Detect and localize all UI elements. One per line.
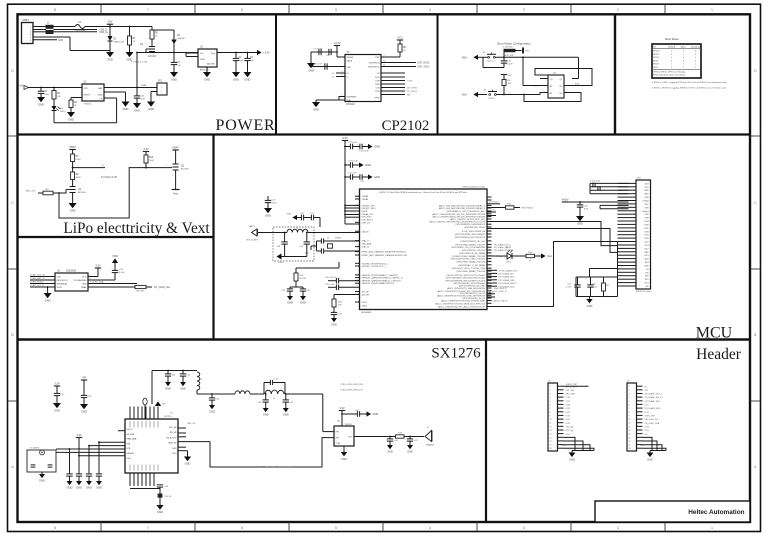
ground at C32 [53,403,61,413]
wire gate Q3 [146,165,172,168]
svg-text:JP2: JP2 [637,178,642,180]
svg-text:AO3401: AO3401 [148,55,157,58]
svg-text:C10: C10 [140,96,145,98]
svg-text:(ADC2_CH7/GPIO27)_SDA_OLED/GPI: (ADC2_CH7/GPIO27)_SDA_OLED/GPIO4 [447,287,486,290]
label ctrl notes [340,384,363,392]
svg-text:GND: GND [462,56,468,59]
svg-text:10K: 10K [57,96,61,98]
svg-text:SD0: SD0 [645,276,649,278]
svg-text:SDIN(SDA): SDIN(SDA) [57,283,68,286]
svg-text:D-: D- [347,77,350,79]
svg-text:C9 4.7uF: C9 4.7uF [313,64,323,66]
svg-text:PN_SLAVE_SDI_19: PN_SLAVE_SDI_19 [645,396,664,399]
svg-text:SENSOR_CAPN(GPIO38/ADC1_CH2/RT: SENSOR_CAPN(GPIO38/ADC1_CH2/RTC) [362,279,402,282]
wire header comb [618,183,629,296]
svg-text:IO26: IO26 [644,238,648,240]
resistor R1 [110,26,136,52]
wire misc stubs [487,243,512,302]
svg-text:GND: GND [123,107,129,111]
svg-text:GND: GND [283,413,289,417]
wire lipo loop [58,168,146,218]
svg-text:3V3: 3V3 [508,75,513,77]
svg-text:5: 5 [335,8,337,12]
ground at R4 [67,112,75,122]
svg-text:U4: U4 [553,73,557,75]
svg-text:6: 6 [550,404,551,406]
svg-text:U5: U5 [57,271,61,273]
svg-text:AO3400: AO3400 [78,191,87,194]
svg-text:L1: L1 [47,23,50,25]
svg-text:IO25: IO25 [644,235,648,237]
ic U5 OLED [55,271,88,292]
ground arrow c13 [368,144,380,149]
svg-text:100K: 100K [149,160,155,162]
svg-text:GND: GND [347,100,352,102]
svg-text:GND: GND [157,510,163,514]
svg-text:PROG: PROG [84,95,91,97]
svg-text:2K: 2K [74,105,77,107]
svg-text:(IO13/MTCK/HS2_DATA3)_TOUCH4: (IO13/MTCK/HS2_DATA3)_TOUCH4 [452,255,486,258]
svg-text:3: 3 [172,175,174,177]
svg-text:1: 1 [711,8,713,12]
ground arrow c14 [359,162,371,167]
svg-text:VDD: VDD [112,254,118,258]
power rail 3.3V MCU [342,136,348,224]
pin stubs U6 right [487,197,492,307]
svg-text:(GPIO23/VSPID)_GPIO23/VSPID: (GPIO23/VSPID)_GPIO23/VSPID [455,234,486,236]
svg-text:GND: GND [644,190,649,192]
svg-text:OLED_SDA 4: OLED_SDA 4 [30,280,44,283]
svg-text:5: 5 [629,401,630,403]
wire header decouple net [576,269,618,297]
svg-text:PN_SLAVE_SDO: PN_SLAVE_SDO [645,400,661,403]
svg-text:VDDA: VDDA [362,210,368,213]
svg-text:IO38: IO38 [644,218,648,220]
svg-text:S2: S2 [484,89,487,91]
svg-text:A: A [11,465,14,469]
crystal Y1 [305,238,360,255]
capacitor C40 xtal chain [130,485,172,505]
svg-text:4: 4 [429,526,431,530]
transistor Q1 AO3401 [131,39,157,64]
svg-text:MTDI: MTDI [653,60,659,62]
svg-text:GND: GND [577,222,583,226]
svg-text:L5: L5 [273,398,276,400]
capacitor C20 C21 row [287,213,320,227]
svg-text:PN_SLAVE_SDO_27: PN_SLAVE_SDO_27 [494,249,512,252]
svg-text:0.1uF: 0.1uF [593,287,599,289]
power VDD arrow [112,254,118,270]
resistor R6 [501,75,512,96]
svg-text:GND: GND [148,107,154,111]
svg-text:7: 7 [550,408,551,410]
svg-text:25: 25 [383,64,385,66]
svg-text:SENSOR_CAPP(GPIO37/ADC1_CH1/RT: SENSOR_CAPP(GPIO37/ADC1_CH1/RTC_1) [362,277,404,280]
svg-text:4: 4 [429,8,431,12]
svg-text:VBAT: VBAT [81,286,87,289]
svg-text:CP_RTS1: CP_RTS1 [407,91,418,93]
svg-text:GND: GND [365,163,371,167]
wire RST net [497,51,579,79]
svg-text:J3: J3 [627,381,630,383]
table boot mode [652,37,702,78]
svg-text:10uF: 10uF [272,202,278,204]
inductor L5 [265,390,284,400]
svg-text:VR_ANA: VR_ANA [127,433,135,436]
wire 3.3V rail [137,50,270,55]
wire U0TXD to header [487,222,618,246]
svg-text:C10: C10 [507,61,512,63]
capacitor C16 [360,174,368,183]
capacitor C14 [344,161,359,168]
svg-text:R14: R14 [338,302,343,304]
svg-text:RFI_LF: RFI_LF [127,429,134,431]
svg-text:SX1276: SX1276 [164,416,172,418]
svg-text:B1: B1 [550,86,552,88]
svg-text:U7: U7 [170,413,174,415]
svg-text:R13: R13 [300,275,305,277]
led LED1 charge [52,106,67,123]
ground at C36 [209,405,215,414]
svg-text:Boot Mode Configuration: Boot Mode Configuration [497,42,531,46]
svg-text:VBAT: VBAT [172,145,179,149]
svg-text:J1: J1 [427,427,430,429]
svg-text:SSD1306: SSD1306 [66,271,77,273]
svg-text:(IO18)_VSPICLK/GPIO18: (IO18)_VSPICLK/GPIO18 [462,231,486,233]
svg-text:C7 0.1uF: C7 0.1uF [313,49,323,51]
svg-text:CHIP_PU: CHIP_PU [362,222,371,224]
svg-text:RES#(D/C#): RES#(D/C#) [57,280,69,282]
svg-text:VCC: VCC [397,35,403,39]
svg-text:GND: GND [641,445,646,447]
svg-text:Q1: Q1 [140,44,144,46]
svg-text:GPIO2: GPIO2 [653,54,660,56]
resistor R3 [52,87,61,106]
svg-text:5: 5 [341,75,342,77]
svg-text:PN_SLAVE_SDO: PN_SLAVE_SDO [499,276,516,279]
svg-text:IO12: IO12 [644,248,648,250]
label rf note [262,466,294,469]
svg-text:REGIN: REGIN [347,57,354,59]
svg-text:GND: GND [58,40,63,42]
svg-text:4: 4 [341,71,342,73]
svg-text:(GPIO35/ADC1_CH7)_IO35/GPIO35_: (GPIO35/ADC1_CH7)_IO35/GPIO35_ADC [447,210,486,213]
svg-text:SD3: SD3 [645,262,649,264]
svg-text:(ADC1_CH5/GPIO33/32K_XN)_32K_X: (ADC1_CH5/GPIO33/32K_XN)_32K_XN/GPIO33/T… [432,213,486,216]
svg-text:GND: GND [172,448,177,450]
svg-text:VCC: VCC [84,88,89,90]
svg-text:U3: U3 [347,52,351,54]
svg-text:(GPIO3/U0RXD)_U0RXD/GPIO3: (GPIO3/U0RXD)_U0RXD/GPIO3 [456,224,486,226]
svg-text:C20: C20 [300,213,305,215]
svg-text:GPIO0, GPIO2, GPIO5 are floati: GPIO0, GPIO2, GPIO5 are floating [653,70,686,73]
capacitor C2 [233,52,244,72]
section title POWER [216,117,276,134]
capacitor C13 [359,144,369,153]
svg-text:ESP32: 2.4 GHz Wi-Fi+BT/BLE mu: ESP32: 2.4 GHz Wi-Fi+BT/BLE multi-band u… [379,191,466,194]
ic U6 ESP32 module [360,186,488,313]
svg-text:If MTDI is HIGH LV, toggling P: If MTDI is HIGH LV, toggling PGM then RT… [652,87,727,90]
svg-text:VDD: VDD [162,404,167,406]
svg-text:1: 1 [550,386,551,388]
capacitor C23 [300,287,311,296]
svg-text:RF part, keep 50 ohm microstri: RF part, keep 50 ohm microstrip [262,466,294,469]
svg-text:U3: U3 [84,82,88,84]
svg-text:Boot Mode: Boot Mode [665,37,679,41]
svg-text:D: D [754,69,757,73]
svg-text:GND: GND [185,462,191,466]
svg-text:CTRL=0:RFC--RF2 (TX): CTRL=0:RFC--RF2 (TX) [340,390,363,392]
inductor L6 top [143,398,147,419]
svg-text:2: 2 [550,390,551,392]
resistor R12 series [88,285,171,292]
wire rail VR_PA [152,371,197,405]
svg-text:SDA_OLED_4: SDA_OLED_4 [494,287,506,290]
svg-text:NRESET: NRESET [127,453,136,455]
svg-text:GPIO0: GPIO0 [653,51,660,53]
svg-text:R3: R3 [57,93,61,95]
svg-text:GND: GND [569,458,575,462]
wire VBAT to rail [136,52,138,89]
svg-text:SPIWP_(HS2_DATA3/SD_DATA3/GPIO: SPIWP_(HS2_DATA3/SD_DATA3/GPIO10/U1TXD) [362,254,408,257]
antenna connector J1 [425,427,435,447]
svg-text:IO14: IO14 [645,412,650,414]
svg-text:IO13: IO13 [645,426,650,428]
wire rf out [354,436,396,438]
svg-text:X1 32MHz: X1 32MHz [30,448,39,450]
svg-text:POWER: POWER [216,117,276,134]
power 3.3V OLED [88,263,101,276]
svg-text:R15: R15 [507,204,512,206]
svg-text:SDA: SDA [82,283,87,286]
capacitor C12 [344,142,359,149]
svg-text:Q3: Q3 [181,166,185,168]
svg-text:10: 10 [629,419,631,421]
wire U0RXD to header [487,229,618,253]
svg-text:GND: GND [287,214,292,216]
svg-text:GND: GND [68,118,74,122]
svg-text:(GPIO15/MTDO/HS2_CMD)_TOUCH3: (GPIO15/MTDO/HS2_CMD)_TOUCH3 [451,259,486,261]
ground arrow GND2 [462,92,487,97]
crystal oscillator X1 [27,448,56,475]
resistor R2 [130,27,159,40]
wire ADC tap [73,165,105,168]
capacitor C15 [344,173,359,180]
svg-text:RTS: RTS [375,91,380,93]
wire battery rail +5V [19,85,82,90]
wire U3 D+ D- [332,71,345,79]
capacitor C25 series [325,284,360,290]
svg-text:32K_XP: 32K_XP [362,292,370,294]
svg-text:GND: GND [76,486,82,490]
svg-text:(GPIO22/U0RTS)_SD_CLK: (GPIO22/U0RTS)_SD_CLK [460,241,485,243]
ground at X1 [39,474,45,483]
capacitor C18 [276,232,288,257]
section title CP2102 [382,118,430,134]
svg-text:+3.3V: +3.3V [263,52,270,55]
svg-text:R17: R17 [606,285,609,287]
svg-text:AO3407: AO3407 [181,168,190,171]
svg-text:0.1uF: 0.1uF [566,287,572,289]
capacitor C36 [209,393,220,405]
svg-text:IO34: IO34 [644,221,648,223]
svg-text:220K: 220K [76,159,82,161]
ground rf box [277,254,307,265]
ground at C39 [283,408,289,417]
ground at C17 [264,208,272,218]
svg-text:C3: C3 [250,57,254,59]
capacitor C47 [407,436,419,445]
svg-text:18: 18 [629,448,631,450]
svg-text:Vext(n): Vext(n) [643,210,649,213]
svg-text:OLED_RST 21: OLED_RST 21 [30,278,45,280]
svg-text:VDD: VDD [347,67,352,69]
svg-text:RFC: RFC [349,437,354,439]
svg-text:1uF: 1uF [177,65,181,67]
svg-text:IO35: IO35 [566,423,571,425]
svg-text:10: 10 [550,419,552,421]
svg-text:GND: GND [331,323,337,327]
svg-text:GND: GND [587,304,593,308]
svg-text:(GPIO22/VSPIWP)_GPIO22/U0RTS_R: (GPIO22/VSPIWP)_GPIO22/U0RTS_Radio3 [445,280,486,282]
svg-text:(GPIO13/MTCK)_SD_DATA1: (GPIO13/MTCK)_SD_DATA1 [459,252,486,255]
wire U7 left pins [56,431,125,456]
svg-text:SUSPEND: SUSPEND [347,97,358,99]
svg-text:CE: CE [99,99,103,101]
svg-text:VDDA3: VDDA3 [362,195,370,198]
svg-text:D1: D1 [114,39,118,41]
svg-text:(IO5/VSPICS0)_GPIO5: (IO5/VSPICS0)_GPIO5 [464,227,486,229]
capacitor C46 [387,436,399,445]
svg-text:GND: GND [200,59,205,61]
svg-text:SENSOR_VN(GPIO39/ADC1/RTC3): SENSOR_VN(GPIO39/ADC1/RTC3) [362,282,395,285]
svg-text:(GPIO14/HS2_CLK)_TOUCH6/MTMS: (GPIO14/HS2_CLK)_TOUCH6/MTMS [451,247,485,249]
svg-text:IO2: IO2 [645,286,648,288]
wire OLED left pins [30,274,55,287]
ground at Q2 [69,203,77,213]
svg-text:(GPIO16/U2RXD)_GPIO16/U2RXD_Ra: (GPIO16/U2RXD)_GPIO16/U2RXD_Radio2 [446,278,486,280]
ground at C5 [133,103,141,113]
svg-text:C16: C16 [360,181,365,183]
svg-text:3.3V: 3.3V [143,147,149,151]
wire tx loop [210,438,334,467]
ground at C34 [165,382,171,391]
svg-text:5: 5 [550,401,551,403]
svg-text:ESP_EN: ESP_EN [505,55,514,57]
svg-text:C39: C39 [290,402,295,404]
svg-text:RFI_HF: RFI_HF [170,432,177,434]
svg-text:IO38: IO38 [566,405,571,407]
svg-text:IO27: IO27 [645,405,650,407]
svg-text:Heltec Automation: Heltec Automation [688,509,744,516]
power Vin 5V header [562,197,629,202]
power U8 vdd [339,406,345,426]
svg-text:VBAT_RF: VBAT_RF [168,442,177,445]
svg-text:R10: R10 [149,157,154,159]
ground at D1 [106,52,114,62]
svg-text:3.3V: 3.3V [76,433,82,437]
svg-text:CTRL: CTRL [336,443,341,445]
svg-text:(GPIO19/VSPIQ)_GPIO19/U0CTS: (GPIO19/VSPIQ)_GPIO19/U0CTS [454,237,485,239]
ground at OLED [44,286,52,303]
svg-text:R4: R4 [74,102,78,104]
svg-text:10uF: 10uF [140,99,146,101]
svg-text:Q2: Q2 [559,79,562,81]
svg-text:MCU: MCU [696,324,733,341]
svg-text:CTS: CTS [375,88,380,90]
svg-text:VBAT: VBAT [69,145,76,149]
ground at J2 [569,453,576,462]
svg-text:(GPIO27/HS2_DATA7)_TOUCH7: (GPIO27/HS2_DATA7)_TOUCH7 [455,243,485,246]
wire +5V rail top [85,20,152,27]
resistor R18 [396,433,424,439]
svg-text:L3: L3 [200,379,203,381]
capacitor C24 series [325,277,360,283]
ground at JP1 [147,102,155,112]
svg-text:PN_SLAVE_SDI: PN_SLAVE_SDI [499,273,515,276]
svg-text:R16: R16 [528,252,533,254]
svg-text:A: A [754,465,757,469]
svg-text:5: 5 [335,526,337,530]
capacitor C27 C28 header [590,181,629,194]
svg-text:C4: C4 [44,91,48,93]
svg-text:Vin5V: Vin5V [562,197,569,201]
svg-text:GND: GND [67,486,73,490]
svg-text:7: 7 [147,526,149,530]
svg-text:IO15: IO15 [644,283,648,285]
svg-text:PN_SLAVE_SDI_19: PN_SLAVE_SDI_19 [494,246,511,249]
svg-text:OLED_SCL 15: OLED_SCL 15 [30,285,45,287]
svg-text:GND: GND [70,209,76,213]
svg-text:GND: GND [644,194,649,196]
svg-text:LiPo electtricity & Vext: LiPo electtricity & Vext [63,220,210,237]
svg-text:3.3V: 3.3V [339,406,345,410]
svg-text:RFO_HF: RFO_HF [169,427,177,429]
svg-text:C23: C23 [307,290,312,292]
svg-text:(GPIO0/CLK_OUT1)_TOUCH1_PGM: (GPIO0/CLK_OUT1)_TOUCH1_PGM [452,268,486,270]
svg-text:1: 1 [383,55,384,57]
svg-text:SMBJ5.0A: SMBJ5.0A [114,40,125,43]
svg-text:USB_D+: USB_D+ [99,31,109,34]
svg-text:SD2: SD2 [645,259,649,261]
wire CE loop [54,98,117,123]
wire rf rail B [197,393,235,395]
svg-text:ESP32-D0WDQ6 module: ESP32-D0WDQ6 module [462,186,485,188]
svg-text:1K: 1K [403,50,406,52]
svg-text:1: 1 [629,386,630,388]
svg-text:10uF: 10uF [584,208,589,210]
svg-text:C24 0.1uF 4: C24 0.1uF 4 [325,277,337,279]
svg-text:D+: D+ [332,73,336,75]
svg-text:C15 1uF: C15 1uF [348,173,357,175]
svg-text:+3.3V: +3.3V [334,41,341,45]
svg-text:10uF: 10uF [44,94,50,96]
svg-text:R8: R8 [76,174,80,176]
svg-text:C22: C22 [281,290,286,292]
svg-text:R19 0R: R19 0R [165,496,172,498]
capacitor C35 [180,370,191,382]
svg-text:CP_DTR1: CP_DTR1 [407,88,418,90]
svg-text:GND: GND [300,301,306,305]
svg-text:2: 2 [617,8,619,12]
svg-text:DTR: DTR [375,81,380,83]
svg-text:C46: C46 [394,440,399,442]
svg-text:ESP32 Pin board: ESP32 Pin board [636,291,651,293]
svg-text:Reset-1: Reset-1 [487,60,495,63]
jumper JP1 [151,81,167,102]
svg-text:C17: C17 [272,200,277,202]
svg-text:GND: GND [107,58,113,62]
